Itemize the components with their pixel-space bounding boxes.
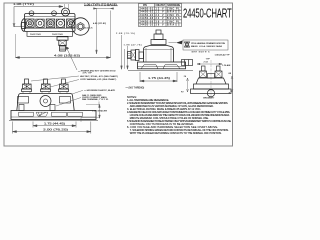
top view right ear	[72, 18, 89, 35]
end view centerline	[210, 60, 212, 97]
svg-text:1.75 (44.45): 1.75 (44.45)	[44, 122, 65, 125]
end view base	[191, 89, 232, 94]
front view housing	[17, 94, 74, 111]
svg-text:12 V: 12 V	[156, 9, 164, 11]
svg-text:BRASS: BRASS	[167, 24, 180, 27]
svg-text:1.88 (47.75): 1.88 (47.75)	[124, 44, 142, 46]
svg-text:SEE NOTE 5: SEE NOTE 5	[192, 51, 211, 53]
svg-text:24450-08: 24450-08	[140, 18, 154, 20]
table	[139, 4, 182, 27]
svg-text:1/2 (12.7): 1/2 (12.7)	[83, 28, 93, 30]
svg-text:MASS. U.S.A. SERIES 24450: MASS. U.S.A. SERIES 24450	[191, 45, 223, 48]
svg-text:12 V: 12 V	[156, 12, 164, 14]
top view left vertical dim	[13, 7, 24, 28]
svg-text:24 V: 24 V	[156, 18, 164, 20]
svg-text:10-32 THD: 10-32 THD	[30, 34, 41, 36]
svg-text:3 PL TYP: 3 PL TYP	[83, 73, 93, 75]
svg-text:WITH THE PLUNGER RETURNING CON: WITH THE PLUNGER RETURNING CONTACTS TO T…	[130, 132, 222, 135]
svg-text:LOCK WASHER, 4 PL (SEE CHART): LOCK WASHER, 4 PL (SEE CHART)	[80, 78, 117, 81]
end view circle	[207, 90, 214, 97]
svg-text:BRASS: BRASS	[167, 11, 180, 14]
side view left terminal cylinder	[128, 50, 144, 61]
top view body	[25, 14, 76, 32]
front view bottom dim 2	[13, 122, 91, 134]
svg-text:1.00 (25.4) TYP: 1.00 (25.4) TYP	[215, 55, 231, 57]
front view stud pedestals	[23, 92, 67, 94]
front view stud C	[59, 79, 69, 92]
svg-text:24 V: 24 V	[156, 15, 164, 17]
svg-text:COIL VOLT: COIL VOLT	[156, 5, 166, 7]
svg-text:36 V: 36 V	[156, 21, 164, 23]
end view stud 2	[215, 66, 222, 78]
front view stud B	[41, 79, 51, 92]
front view center boss	[40, 96, 51, 107]
end view right dim	[231, 76, 233, 92]
side view ground line	[128, 70, 193, 72]
extension line B	[110, 11, 112, 58]
top view lower lip	[27, 32, 73, 37]
svg-text:— HOUSING PLASTIC, BLACK: — HOUSING PLASTIC, BLACK	[84, 89, 116, 92]
svg-text:1.00 SPACER: 1.00 SPACER	[92, 109, 107, 112]
border frame	[4, 3, 233, 146]
svg-text:4.80 (121.92): 4.80 (121.92)	[93, 23, 106, 25]
front view right vert dim	[99, 104, 101, 118]
boss dim ticks	[65, 4, 69, 9]
top view left ear	[21, 19, 24, 32]
top view mid circle 1	[36, 19, 44, 27]
svg-text:4.08 (103.63): 4.08 (103.63)	[54, 54, 80, 57]
svg-text:ZINC PL: ZINC PL	[167, 9, 180, 11]
table text	[140, 4, 181, 26]
svg-text:HARDWARE: HARDWARE	[167, 4, 180, 7]
svg-text:24450-01: 24450-01	[140, 9, 154, 11]
extension line A	[96, 8, 98, 54]
svg-text:1.06 (TYP): 1.06 (TYP)	[13, 3, 34, 6]
side view logo stamp	[169, 40, 229, 50]
top view boss	[62, 8, 70, 16]
svg-text:ZINC PL: ZINC PL	[167, 21, 180, 23]
top view terminal 3	[67, 19, 76, 28]
svg-text:24450-09: 24450-09	[140, 21, 154, 23]
top view bottom dim line	[15, 34, 17, 58]
svg-text:ZINC PL: ZINC PL	[167, 15, 180, 17]
callout leaders front view	[31, 76, 99, 108]
front view stud A	[22, 79, 32, 92]
svg-text:2.88 (73.15): 2.88 (73.15)	[116, 33, 135, 35]
svg-text:COLE HERSEE COMPANY BOSTON: COLE HERSEE COMPANY BOSTON	[191, 42, 225, 45]
small top dim 96-110	[94, 8, 114, 10]
end view top dim	[197, 63, 222, 65]
side view bottom dim	[140, 72, 177, 82]
end view body	[194, 78, 229, 89]
svg-text:BRASS: BRASS	[167, 17, 180, 20]
svg-text:TYP: TYP	[206, 59, 211, 61]
svg-text:24450-10: 24450-10	[140, 25, 154, 27]
svg-text:— (NO THREAD): — (NO THREAD)	[126, 87, 145, 90]
side view base	[138, 62, 186, 69]
front view small terminal	[19, 105, 24, 111]
svg-text:GROMMET: GROMMET	[203, 98, 215, 100]
top view terminal 2	[46, 19, 55, 28]
end view left dim	[187, 78, 189, 92]
svg-text:24450-02: 24450-02	[140, 12, 154, 14]
svg-text:36 V: 36 V	[156, 25, 164, 27]
svg-text:HEX NUT, STEEL, 4 PL (SEE CHAR: HEX NUT, STEEL, 4 PL (SEE CHART)	[80, 75, 118, 78]
svg-text:10-32 THD: 10-32 THD	[52, 34, 63, 36]
svg-text:1.06 (TYP) (TO BASE): 1.06 (TYP) (TO BASE)	[84, 4, 117, 7]
top view screw heads on edge	[29, 11, 56, 16]
top view mid circle 2	[56, 19, 64, 27]
side view right bracket step	[182, 60, 193, 66]
front view bottom dim 1	[33, 122, 76, 128]
svg-text:24450-03: 24450-03	[140, 15, 154, 17]
svg-text:1.25 A/R: 1.25 A/R	[222, 64, 231, 67]
top view top dim line	[14, 6, 118, 8]
front view base	[9, 111, 98, 121]
side view body dome	[144, 46, 174, 63]
bottom stud of top view	[57, 37, 68, 51]
notes lines	[127, 99, 231, 135]
side view top stud	[151, 30, 166, 45]
svg-text:1.75 (44.45): 1.75 (44.45)	[148, 77, 170, 80]
side view left dims	[121, 35, 129, 69]
svg-text:P/N: P/N	[143, 5, 147, 7]
svg-text:SAE TERMINAL, TYP 2 PL: SAE TERMINAL, TYP 2 PL	[82, 98, 109, 101]
end view center boss	[208, 74, 215, 79]
front view side slots	[18, 97, 29, 104]
leader to center stud callout	[66, 47, 77, 71]
end view stud 1	[200, 66, 207, 78]
top view terminal 1	[25, 19, 34, 28]
svg-text:24450-CHART: 24450-CHART	[183, 6, 232, 21]
svg-text:3.00 (76.20): 3.00 (76.20)	[43, 128, 68, 131]
